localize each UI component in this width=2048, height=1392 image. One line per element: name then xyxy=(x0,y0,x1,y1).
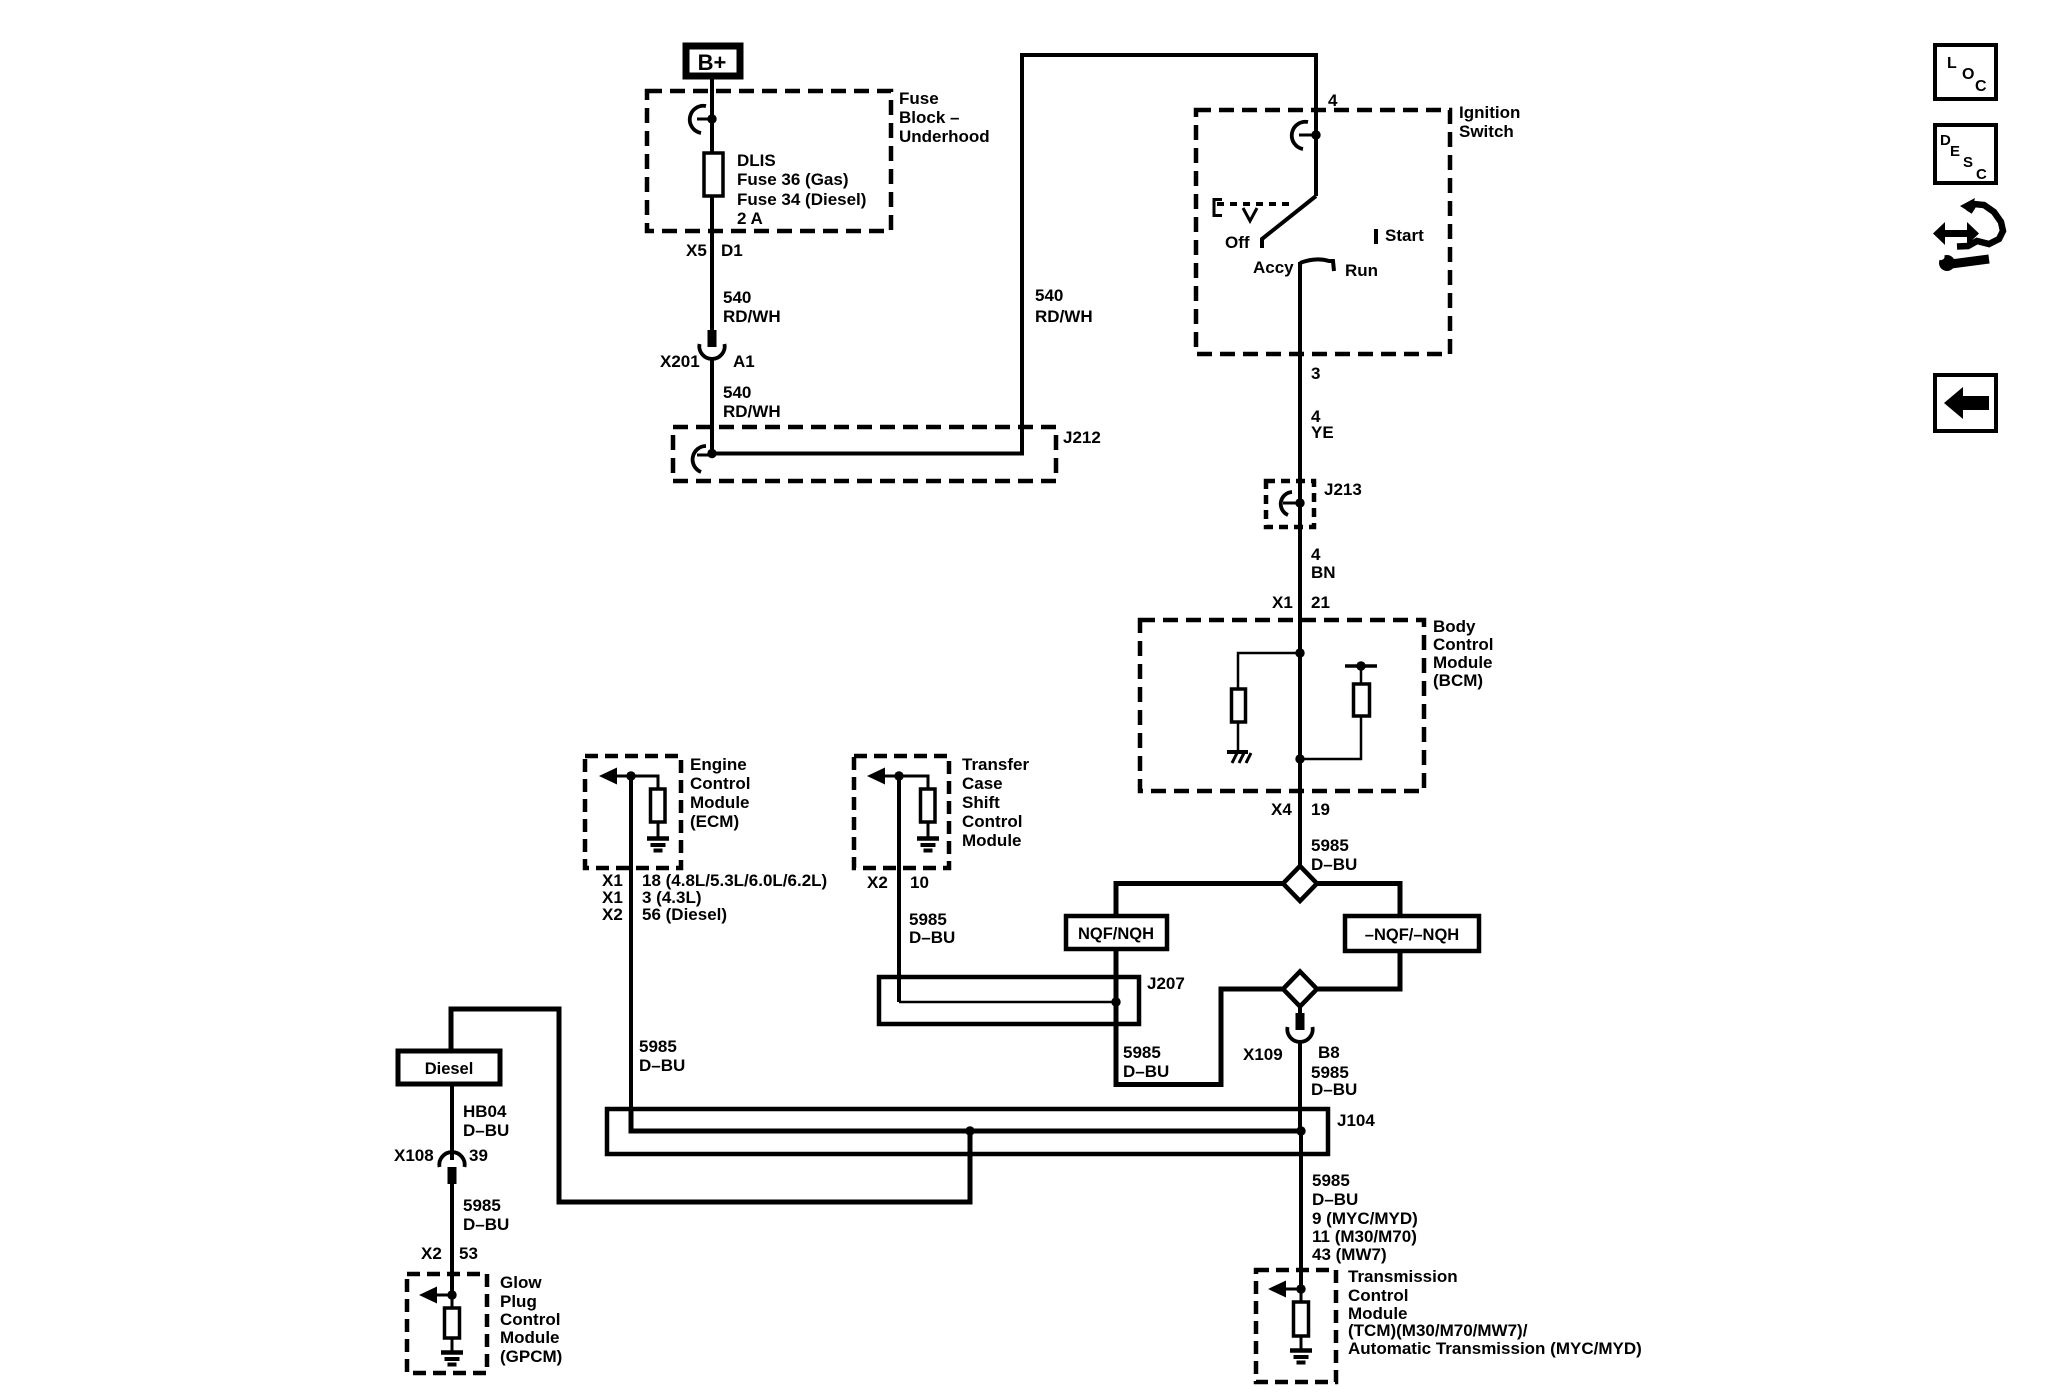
label 5985 D-BU above J104 xyxy=(1311,1063,1357,1099)
node junction TCSCM xyxy=(894,771,903,780)
svg-text:39: 39 xyxy=(469,1146,488,1165)
ground TCSCM xyxy=(917,839,939,851)
BCM left branch wire xyxy=(1238,653,1300,690)
ground TCM xyxy=(1290,1351,1312,1363)
svg-text:NQF/NQH: NQF/NQH xyxy=(1078,925,1154,943)
svg-text:(ECM): (ECM) xyxy=(690,812,739,831)
svg-text:Module: Module xyxy=(962,831,1022,850)
svg-text:Shift: Shift xyxy=(962,793,1000,812)
svg-text:5985: 5985 xyxy=(909,910,947,929)
icon back arrow box xyxy=(1935,375,1996,431)
icon LOC box xyxy=(1935,45,1996,99)
mechanical link arrow V xyxy=(1243,208,1257,221)
label 5985 D-BU left of X109 xyxy=(1123,1043,1169,1081)
svg-text:Engine: Engine xyxy=(690,755,747,774)
svg-text:B8: B8 xyxy=(1318,1043,1340,1062)
svg-text:Control: Control xyxy=(690,774,750,793)
resistor GPCM xyxy=(445,1308,460,1338)
svg-text:DLIS: DLIS xyxy=(737,151,776,170)
clip connector in J212 xyxy=(693,446,717,472)
svg-text:Glow: Glow xyxy=(500,1273,542,1292)
svg-text:Control: Control xyxy=(1348,1286,1408,1305)
connector X108 xyxy=(439,1152,464,1184)
svg-text:Module: Module xyxy=(500,1328,560,1347)
svg-text:11 (M30/M70): 11 (M30/M70) xyxy=(1312,1227,1417,1246)
label 5985 D-BU below BCM xyxy=(1311,836,1357,874)
wire lower splice to X109 xyxy=(1298,1006,1302,1014)
label Body Control Module BCM xyxy=(1433,617,1493,690)
wire TCSCM to J207 xyxy=(897,776,901,1002)
transfer case shift control module box xyxy=(854,756,949,868)
svg-text:Fuse: Fuse xyxy=(899,89,939,108)
svg-text:X2: X2 xyxy=(867,873,888,892)
label Transmission Control Module TCM xyxy=(1348,1267,1642,1358)
node junction TCM xyxy=(1296,1284,1305,1293)
svg-text:C: C xyxy=(1975,78,1987,95)
svg-text:RD/WH: RD/WH xyxy=(1035,307,1093,326)
label 4 YE xyxy=(1311,407,1334,442)
labels X201 A1 xyxy=(660,352,755,371)
node junction J104 right xyxy=(1296,1126,1305,1135)
wire resistor to ground ECM xyxy=(657,822,660,837)
mechanical link bracket xyxy=(1214,200,1222,216)
svg-text:S: S xyxy=(1963,154,1973,171)
wire ignition accy to J213 xyxy=(1298,262,1302,503)
svg-text:Underhood: Underhood xyxy=(899,127,990,146)
ground ECM xyxy=(647,839,669,851)
svg-text:J207: J207 xyxy=(1147,974,1185,993)
wire -NQF/-NQH to lower splice xyxy=(1317,951,1400,989)
svg-text:Case: Case xyxy=(962,774,1003,793)
svg-text:X108: X108 xyxy=(394,1146,434,1165)
svg-text:Module: Module xyxy=(690,793,750,812)
svg-text:(TCM)(M30/M70/MW7)/: (TCM)(M30/M70/MW7)/ xyxy=(1348,1321,1528,1340)
ECM box xyxy=(585,756,681,868)
svg-text:J213: J213 xyxy=(1324,480,1362,499)
svg-text:(BCM): (BCM) xyxy=(1433,671,1483,690)
wire J212 to ignition switch pin 4 xyxy=(712,55,1316,454)
svg-text:O: O xyxy=(1962,66,1974,83)
junction box J104 xyxy=(607,1109,1328,1154)
wire Diesel to X108 xyxy=(450,1084,454,1160)
wire resistor to ground TCM xyxy=(1300,1336,1303,1349)
svg-text:43 (MW7): 43 (MW7) xyxy=(1312,1245,1387,1264)
BCM box xyxy=(1140,620,1424,791)
wire GPCM junction to resistor xyxy=(451,1295,454,1309)
node junction J207 xyxy=(1111,997,1120,1006)
junction box J207 xyxy=(879,977,1139,1024)
wire through BCM xyxy=(1298,640,1302,791)
run contact arc xyxy=(1300,259,1334,271)
svg-text:Plug: Plug xyxy=(500,1292,537,1311)
node dot on T bar xyxy=(1356,661,1365,670)
svg-text:Accy: Accy xyxy=(1253,258,1294,277)
wire TCM junction to resistor xyxy=(1300,1289,1303,1303)
svg-text:Start: Start xyxy=(1385,226,1424,245)
svg-text:Module: Module xyxy=(1433,653,1493,672)
splice pack J212 xyxy=(673,427,1056,481)
svg-text:D–BU: D–BU xyxy=(1311,855,1357,874)
svg-text:5985: 5985 xyxy=(1123,1043,1161,1062)
resistor BCM left xyxy=(1232,689,1246,722)
TCSCM internal wire xyxy=(885,776,928,790)
switch blade wire xyxy=(1314,135,1318,196)
wire J104 to TCM xyxy=(1299,1131,1303,1289)
BCM right branch wire xyxy=(1300,716,1361,759)
svg-text:5985: 5985 xyxy=(1311,836,1349,855)
svg-text:540: 540 xyxy=(1035,286,1063,305)
labels 5985 D-BU 9 11 43 above TCM xyxy=(1312,1171,1418,1264)
supply T bar xyxy=(1345,664,1377,668)
svg-text:L: L xyxy=(1947,55,1957,72)
wire B+ into fuse block xyxy=(710,79,714,153)
svg-text:Transmission: Transmission xyxy=(1348,1267,1458,1286)
label 540 RD/WH xyxy=(723,288,781,326)
wire upper splice to -NQF/-NQH xyxy=(1317,884,1400,917)
svg-text:D–BU: D–BU xyxy=(463,1215,509,1234)
svg-text:5985: 5985 xyxy=(639,1037,677,1056)
svg-text:BN: BN xyxy=(1311,563,1336,582)
node junction BCM upper xyxy=(1295,648,1304,657)
svg-text:Control: Control xyxy=(500,1310,560,1329)
svg-text:21: 21 xyxy=(1311,593,1330,612)
svg-text:YE: YE xyxy=(1311,423,1334,442)
svg-text:56 (Diesel): 56 (Diesel) xyxy=(642,905,727,924)
fuse DLIS xyxy=(704,153,723,196)
splice diamond lower xyxy=(1283,972,1317,1007)
resistor TCSCM xyxy=(921,789,936,822)
label Ignition Switch xyxy=(1459,103,1520,141)
svg-text:D–BU: D–BU xyxy=(1123,1062,1169,1081)
TCSCM pin labels X2 10 xyxy=(867,873,929,892)
wire X109 to J104 xyxy=(1298,1041,1302,1131)
GPCM arrow xyxy=(419,1287,437,1304)
ignition switch box xyxy=(1196,110,1450,354)
label 4 BN xyxy=(1311,545,1336,582)
svg-text:X109: X109 xyxy=(1243,1045,1283,1064)
svg-text:E: E xyxy=(1950,143,1960,160)
svg-text:Diesel: Diesel xyxy=(425,1060,474,1078)
TCSCM arrow xyxy=(867,768,885,785)
wire NQF/NQH through J207 to lower splice xyxy=(1116,949,1283,1085)
node B+ xyxy=(686,46,740,76)
option box -NQF/-NQH xyxy=(1345,916,1479,951)
node junction ECM xyxy=(626,771,635,780)
svg-text:Block –: Block – xyxy=(899,108,959,127)
icon jump arrows with wrench xyxy=(1933,198,2003,271)
labels X108 39 xyxy=(394,1146,488,1165)
ECM internal wire xyxy=(617,776,658,790)
label 5985 D-BU on GPCM wire xyxy=(463,1196,509,1234)
mechanical link dashed line xyxy=(1217,202,1293,206)
TCM arrow wire xyxy=(1286,1288,1301,1291)
pin labels X1 21 xyxy=(1272,593,1330,612)
TCM arrow xyxy=(1268,1281,1286,1298)
svg-text:9 (MYC/MYD): 9 (MYC/MYD) xyxy=(1312,1209,1418,1228)
pin labels X2 53 xyxy=(421,1244,478,1263)
option box NQF/NQH xyxy=(1066,916,1167,949)
svg-text:Switch: Switch xyxy=(1459,122,1514,141)
label Transfer Case Shift Control Module xyxy=(962,755,1029,850)
svg-text:RD/WH: RD/WH xyxy=(723,402,781,421)
svg-text:X4: X4 xyxy=(1271,800,1292,819)
svg-text:4: 4 xyxy=(1311,545,1321,564)
label 5985 D-BU on TCSCM wire xyxy=(909,910,955,947)
svg-text:19: 19 xyxy=(1311,800,1330,819)
option box Diesel xyxy=(398,1051,500,1084)
svg-text:(GPCM): (GPCM) xyxy=(500,1347,562,1366)
svg-text:D–BU: D–BU xyxy=(909,928,955,947)
clip connector in fuse block xyxy=(690,106,717,133)
svg-text:–NQF/–NQH: –NQF/–NQH xyxy=(1365,926,1459,944)
svg-text:540: 540 xyxy=(723,288,751,307)
label Engine Control Module ECM xyxy=(690,755,750,831)
labels X109 B8 xyxy=(1243,1043,1340,1064)
svg-text:53: 53 xyxy=(459,1244,478,1263)
svg-text:10: 10 xyxy=(910,873,929,892)
svg-text:X2: X2 xyxy=(602,905,623,924)
svg-text:Ignition: Ignition xyxy=(1459,103,1520,122)
wire BCM to upper splice xyxy=(1298,791,1302,868)
svg-text:2 A: 2 A xyxy=(737,209,763,228)
svg-text:D1: D1 xyxy=(721,241,743,260)
resistor TCM xyxy=(1294,1302,1309,1336)
contact tick Start xyxy=(1374,229,1378,244)
svg-text:Control: Control xyxy=(1433,635,1493,654)
svg-text:A1: A1 xyxy=(733,352,755,371)
svg-text:C: C xyxy=(1976,166,1987,183)
TCM box xyxy=(1256,1270,1336,1382)
svg-text:Control: Control xyxy=(962,812,1022,831)
svg-text:J212: J212 xyxy=(1063,428,1101,447)
node junction GPCM xyxy=(447,1290,456,1299)
svg-text:5985: 5985 xyxy=(463,1196,501,1215)
switch blade diagonal xyxy=(1262,196,1316,248)
resistor ECM xyxy=(651,789,666,822)
pin labels X5 D1 xyxy=(686,241,743,260)
wire X108 to GPCM xyxy=(450,1184,454,1296)
pin labels X4 19 xyxy=(1271,800,1330,819)
node junction J104 left xyxy=(965,1126,974,1135)
svg-text:3: 3 xyxy=(1311,364,1320,383)
fuse block underhood box xyxy=(647,91,891,231)
wire resistor to supply bar xyxy=(1360,666,1363,684)
GPCM box xyxy=(407,1274,487,1373)
svg-text:D–BU: D–BU xyxy=(1311,1080,1357,1099)
wire X201 to J212 xyxy=(710,358,714,455)
wire inside J104 xyxy=(631,1107,1301,1131)
svg-text:Fuse 36 (Gas): Fuse 36 (Gas) xyxy=(737,170,849,189)
svg-text:540: 540 xyxy=(723,383,751,402)
resistor BCM right xyxy=(1354,684,1370,716)
svg-text:4: 4 xyxy=(1328,91,1338,110)
wire upper splice to NQF/NQH xyxy=(1116,884,1283,917)
ground GPCM xyxy=(441,1353,463,1365)
wire ECM to J104 xyxy=(629,776,633,1131)
svg-text:X1: X1 xyxy=(1272,593,1293,612)
GPCM arrow wire xyxy=(437,1294,452,1297)
label 5985 D-BU on ECM wire xyxy=(639,1037,685,1075)
wire J104 to diesel loop xyxy=(451,1009,970,1202)
connector X201 xyxy=(699,330,724,359)
svg-text:Body: Body xyxy=(1433,617,1476,636)
clip connector in ignition switch xyxy=(1292,122,1321,149)
svg-text:Transfer: Transfer xyxy=(962,755,1029,774)
chassis ground BCM xyxy=(1227,752,1251,763)
splice diamond upper xyxy=(1283,866,1317,901)
svg-text:RD/WH: RD/WH xyxy=(723,307,781,326)
wire resistor to ground GPCM xyxy=(451,1338,454,1351)
svg-text:D–BU: D–BU xyxy=(639,1056,685,1075)
svg-text:B+: B+ xyxy=(698,50,727,75)
label 540 RD/WH second xyxy=(723,383,781,421)
svg-text:Automatic Transmission (MYC/MY: Automatic Transmission (MYC/MYD) xyxy=(1348,1339,1642,1358)
wire fuse to X201 xyxy=(710,196,714,331)
label DLIS fuse xyxy=(737,151,866,228)
wire J213 to BCM xyxy=(1298,503,1302,655)
ECM pin labels xyxy=(602,871,827,924)
label HB04 D-BU xyxy=(463,1102,509,1140)
connector J213 box xyxy=(1266,481,1314,527)
svg-text:X5: X5 xyxy=(686,241,707,260)
wire resistor to chassis ground xyxy=(1237,722,1240,751)
svg-text:HB04: HB04 xyxy=(463,1102,507,1121)
svg-text:Run: Run xyxy=(1345,261,1378,280)
svg-text:X2: X2 xyxy=(421,1244,442,1263)
svg-text:Fuse 34 (Diesel): Fuse 34 (Diesel) xyxy=(737,190,866,209)
label 540 RD/WH right branch xyxy=(1035,286,1093,326)
svg-text:D–BU: D–BU xyxy=(1312,1190,1358,1209)
wire inside J207 xyxy=(899,1001,1116,1004)
svg-text:D–BU: D–BU xyxy=(463,1121,509,1140)
clip connector in J213 xyxy=(1281,492,1305,515)
wire resistor to ground TCSCM xyxy=(927,822,930,837)
label Glow Plug Control Module GPCM xyxy=(500,1273,562,1366)
node junction BCM lower xyxy=(1295,754,1304,763)
icon DESC box xyxy=(1935,125,1996,183)
ECM arrow xyxy=(599,768,617,785)
label Fuse Block Underhood xyxy=(899,89,990,146)
svg-text:J104: J104 xyxy=(1337,1111,1375,1130)
svg-text:5985: 5985 xyxy=(1312,1171,1350,1190)
connector X109 xyxy=(1287,1013,1312,1042)
svg-text:X201: X201 xyxy=(660,352,700,371)
svg-text:Off: Off xyxy=(1225,233,1250,252)
